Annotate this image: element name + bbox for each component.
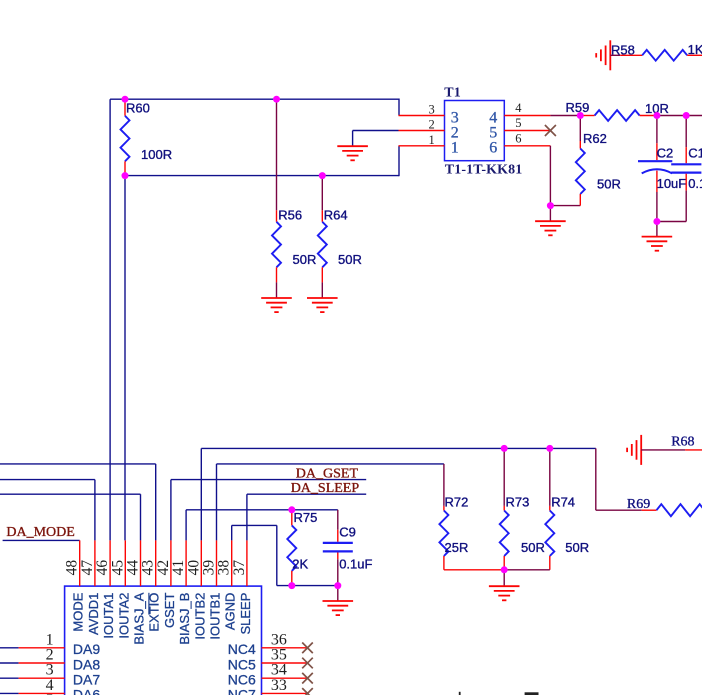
svg-text:50R: 50R [293, 252, 317, 267]
svg-text:50R: 50R [521, 540, 545, 555]
svg-text:C9: C9 [339, 525, 356, 540]
svg-text:DA8: DA8 [73, 656, 100, 672]
svg-text:4: 4 [515, 101, 522, 115]
svg-text:25R: 25R [445, 540, 469, 555]
svg-text:2K: 2K [292, 557, 308, 572]
svg-text:R68: R68 [671, 435, 694, 450]
svg-text:DA9: DA9 [73, 641, 100, 657]
svg-text:1: 1 [451, 140, 459, 157]
svg-text:NC4: NC4 [228, 641, 256, 657]
svg-text:NC6: NC6 [228, 672, 256, 688]
svg-text:50R: 50R [338, 252, 362, 267]
svg-text:IOUTB1: IOUTB1 [208, 593, 223, 640]
svg-text:0.1uF: 0.1uF [339, 557, 372, 572]
svg-text:NC7: NC7 [228, 687, 256, 695]
svg-text:MODE: MODE [71, 592, 86, 631]
svg-text:R59: R59 [566, 100, 590, 115]
svg-text:DA_GSET: DA_GSET [296, 466, 359, 481]
svg-text:1K: 1K [688, 42, 702, 57]
svg-text:DA_SLEEP: DA_SLEEP [291, 481, 360, 496]
svg-text:NC5: NC5 [228, 656, 256, 672]
svg-text:6: 6 [489, 140, 497, 157]
svg-text:DA6: DA6 [73, 687, 100, 695]
svg-text:2: 2 [429, 118, 435, 132]
svg-text:R74: R74 [551, 494, 575, 509]
svg-text:37: 37 [231, 560, 248, 576]
svg-text:R72: R72 [445, 494, 469, 509]
svg-text:1: 1 [429, 133, 435, 147]
svg-text:3: 3 [429, 103, 435, 117]
svg-text:T1-1T-KK81: T1-1T-KK81 [445, 162, 523, 177]
svg-text:C1: C1 [688, 146, 702, 161]
svg-text:10uF: 10uF [657, 176, 687, 191]
svg-text:R62: R62 [583, 131, 607, 146]
svg-text:IOUTA2: IOUTA2 [116, 593, 131, 639]
svg-text:100R: 100R [141, 147, 172, 162]
svg-text:IOUTA1: IOUTA1 [101, 593, 116, 639]
svg-text:R73: R73 [506, 494, 530, 509]
svg-text:R60: R60 [126, 100, 150, 115]
svg-text:R64: R64 [324, 207, 348, 222]
svg-text:GSET: GSET [162, 593, 177, 628]
svg-text:AGND: AGND [223, 593, 238, 631]
svg-text:0.1uF: 0.1uF [688, 176, 702, 191]
svg-text:50R: 50R [597, 177, 621, 192]
svg-text:50R: 50R [565, 540, 589, 555]
svg-text:IOUTB2: IOUTB2 [192, 593, 207, 640]
svg-text:SLEEP: SLEEP [238, 593, 253, 635]
svg-text:R75: R75 [294, 510, 318, 525]
svg-text:R58: R58 [611, 43, 635, 58]
svg-text:BIASJ_B: BIASJ_B [177, 593, 192, 645]
svg-text:6: 6 [515, 131, 521, 145]
svg-text:R56: R56 [278, 207, 302, 222]
svg-text:AVDD1: AVDD1 [86, 593, 101, 635]
svg-text:BIASJ_A: BIASJ_A [132, 592, 147, 644]
svg-text:DA_MODE: DA_MODE [6, 525, 74, 540]
svg-text:33: 33 [271, 677, 287, 694]
svg-text:C2: C2 [657, 146, 674, 161]
svg-text:R69: R69 [627, 497, 650, 512]
svg-text:DA7: DA7 [73, 672, 100, 688]
svg-text:T1: T1 [444, 86, 461, 101]
svg-text:5: 5 [515, 116, 521, 130]
